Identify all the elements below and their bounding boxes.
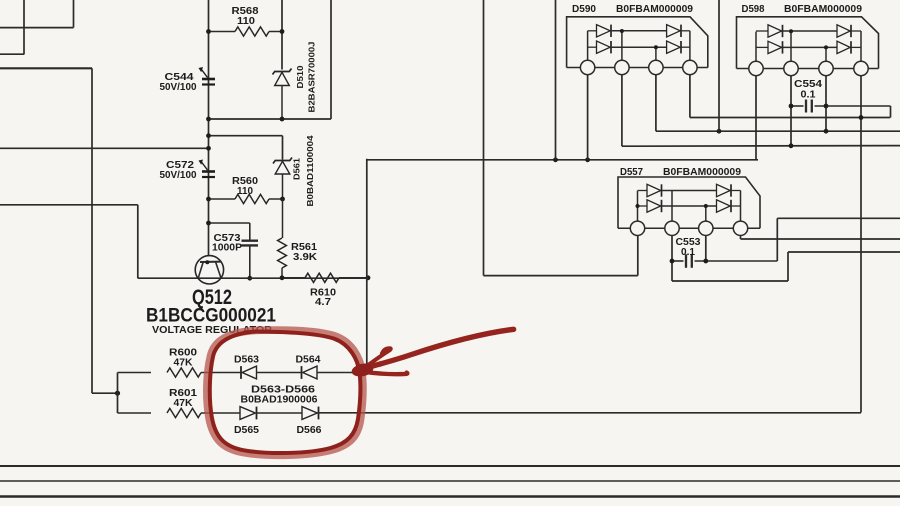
svg-text:B2BASR70000J: B2BASR70000J	[307, 41, 317, 112]
svg-text:D557: D557	[620, 167, 643, 178]
wire	[825, 76, 827, 132]
wire	[689, 75, 691, 118]
wire	[672, 280, 788, 282]
pin 4 of D598	[854, 61, 868, 75]
capacitor C572	[202, 170, 215, 173]
wire	[890, 106, 892, 118]
wire	[208, 0, 210, 74]
junction	[585, 157, 590, 162]
svg-text:D590: D590	[572, 4, 596, 15]
wire	[567, 67, 708, 69]
junction	[206, 221, 211, 226]
zener diode D561	[273, 158, 292, 164]
diode D563	[234, 372, 241, 374]
svg-text:C554: C554	[794, 79, 823, 90]
wire	[281, 0, 283, 70]
junction	[789, 143, 794, 148]
svg-text:50V/100: 50V/100	[160, 82, 197, 93]
svg-text:B0BAD1100004: B0BAD1100004	[305, 135, 315, 206]
pin 4 of D557	[733, 221, 747, 235]
capacitor C544	[202, 78, 215, 81]
resistor R600	[118, 372, 152, 374]
diode D564	[301, 366, 303, 379]
diode D565	[256, 407, 258, 420]
wire	[0, 495, 900, 497]
junction	[115, 391, 120, 396]
svg-text:47K: 47K	[174, 358, 194, 369]
junction	[247, 276, 252, 281]
junction	[670, 259, 675, 264]
svg-text:110: 110	[237, 186, 253, 197]
wire	[0, 204, 138, 206]
wire	[787, 252, 789, 281]
wire	[91, 68, 93, 393]
junction	[280, 117, 285, 122]
wire	[0, 53, 24, 55]
junction	[206, 146, 211, 151]
wire	[755, 76, 757, 160]
svg-text:B0FBAM000009: B0FBAM000009	[616, 4, 693, 15]
resistor R610	[282, 277, 305, 279]
wire	[671, 236, 673, 282]
junction	[206, 133, 211, 138]
wire	[555, 0, 557, 160]
pin 2 of D557	[665, 221, 679, 235]
wire	[740, 236, 742, 240]
svg-text:B0BAD1900006: B0BAD1900006	[241, 394, 318, 406]
pin 1 of D557	[630, 221, 644, 235]
svg-text:0.1: 0.1	[801, 90, 816, 101]
wire	[0, 480, 900, 482]
svg-text:50V/100: 50V/100	[160, 170, 197, 181]
pin 3 of D598	[819, 61, 833, 75]
wire	[92, 392, 118, 394]
junction	[206, 29, 211, 34]
junction	[280, 275, 285, 280]
transistor Q512	[195, 256, 223, 284]
pin 2 of D598	[784, 61, 798, 75]
wire	[621, 75, 623, 147]
junction	[703, 259, 708, 264]
junction	[206, 197, 211, 202]
junction	[553, 157, 558, 162]
junction	[824, 129, 829, 134]
wire	[73, 0, 75, 28]
wire	[0, 147, 209, 149]
wire	[656, 130, 900, 132]
svg-text:1000P: 1000P	[212, 243, 242, 254]
wire	[0, 465, 900, 467]
svg-text:D564: D564	[296, 355, 321, 366]
wire	[366, 159, 368, 373]
wire	[137, 205, 139, 278]
wire	[484, 275, 638, 277]
pin 1 of D598	[749, 61, 763, 75]
svg-text:D563: D563	[234, 355, 259, 366]
diodes in D557	[637, 191, 639, 221]
svg-text:D510: D510	[295, 65, 305, 88]
wire	[138, 277, 368, 279]
wire	[741, 238, 900, 240]
svg-text:B0FBAM000009: B0FBAM000009	[663, 167, 741, 178]
wire	[319, 412, 862, 414]
wire	[655, 75, 657, 132]
capacitor C554	[791, 105, 804, 107]
pin 3 of D590	[649, 60, 663, 74]
wire	[622, 145, 900, 148]
wire	[587, 75, 589, 160]
wire	[0, 27, 74, 29]
resistor R601	[118, 412, 152, 414]
junction	[206, 117, 211, 122]
resistor R561	[282, 199, 284, 238]
wire	[776, 218, 778, 261]
wire	[208, 74, 210, 257]
capacitor C553	[672, 260, 684, 262]
junction	[859, 115, 864, 120]
svg-text:4.7: 4.7	[315, 297, 331, 308]
red annotation circle	[207, 330, 363, 455]
svg-text:D565: D565	[234, 425, 259, 436]
svg-text:D598: D598	[742, 4, 765, 15]
wire	[790, 76, 792, 146]
wire	[705, 236, 707, 262]
resistor R560	[209, 198, 236, 200]
wire	[330, 0, 332, 119]
wire	[690, 117, 890, 119]
wire	[788, 251, 900, 253]
wire	[209, 118, 332, 120]
junction	[366, 275, 371, 280]
wire	[209, 135, 283, 137]
pin 2 of D590	[615, 60, 629, 74]
wire	[367, 159, 758, 161]
diode D566	[318, 407, 320, 420]
resistor R568	[209, 31, 236, 33]
diodes in D598	[755, 32, 757, 62]
wire	[23, 0, 25, 55]
diode array D590 outline	[567, 17, 708, 68]
junction	[280, 29, 285, 34]
wire	[483, 0, 485, 276]
svg-text:D561: D561	[292, 158, 302, 180]
pin 3 of D557	[699, 221, 713, 235]
diode array D598 outline	[737, 17, 879, 69]
svg-text:47K: 47K	[174, 398, 194, 409]
capacitor C573	[209, 222, 250, 224]
diodes in D590	[587, 31, 589, 61]
wire	[860, 76, 862, 413]
zener diode D510	[273, 69, 292, 75]
wire	[282, 136, 284, 160]
svg-text:3.9K: 3.9K	[293, 252, 318, 263]
junction	[824, 104, 829, 109]
wire	[637, 236, 639, 276]
red annotation arrow	[363, 329, 514, 369]
diode array D557 outline	[618, 177, 760, 228]
pin 4 of D590	[683, 60, 697, 74]
wire	[718, 0, 720, 131]
svg-text:B0FBAM000009: B0FBAM000009	[784, 4, 862, 15]
wire	[737, 68, 879, 70]
wire	[0, 67, 92, 69]
junction	[280, 197, 285, 202]
junction	[789, 104, 794, 109]
svg-text:0.1: 0.1	[681, 247, 695, 258]
wire	[618, 227, 760, 229]
wire	[777, 217, 900, 219]
wire	[117, 373, 119, 414]
pin 1 of D590	[580, 60, 594, 74]
junction	[717, 129, 722, 134]
svg-text:D566: D566	[297, 425, 322, 436]
svg-text:110: 110	[237, 15, 255, 27]
